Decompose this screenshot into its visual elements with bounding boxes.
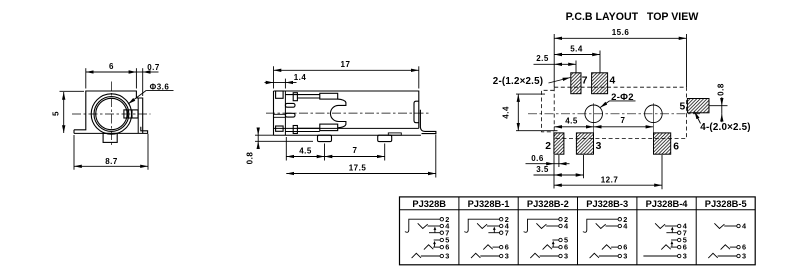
PJ328B-3 terminal 2 circle	[618, 218, 621, 221]
PJ328B terminal 4 circle	[440, 224, 443, 227]
dimension 4.4: dimension line with arrows	[517, 94, 519, 131]
side view: lower terminal tab	[293, 126, 297, 134]
dimension 15.6: dimension line with arrows	[554, 37, 686, 39]
variant table: column border 4	[636, 197, 638, 265]
PJ328B-4 pin 5 wire	[671, 239, 677, 241]
side view: bottom-left corner box	[276, 126, 284, 131]
dimension 17: extension lines	[273, 66, 275, 88]
side view: solder pin foot 1	[318, 135, 332, 141]
dimension 3.5: dimension line with arrows	[554, 174, 584, 176]
hole note: underline	[610, 100, 636, 102]
PJ328B pin 4 wire	[428, 225, 441, 227]
PJ328B pin 7 wire	[429, 232, 440, 234]
hole 1 extension line down	[593, 124, 595, 139]
svg-text:6: 6	[505, 243, 509, 252]
front view: bottom center tab	[103, 133, 117, 142]
dimension 2.5: dimension line with arrows	[554, 63, 576, 65]
PJ328B terminal 6 circle	[440, 245, 443, 248]
PJ328B-4 terminal 4 circle	[678, 224, 681, 227]
PJ328B-5 terminal 6 circle	[737, 245, 740, 248]
svg-text:1.4: 1.4	[294, 73, 307, 82]
svg-text:5: 5	[680, 102, 686, 113]
PJ328B-1 terminal 7 circle	[500, 231, 503, 234]
PJ328B-3 pin 3 contact hat	[590, 253, 599, 258]
PJ328B-3 pin 2 sleeve wire with hook	[583, 219, 618, 232]
svg-text:3: 3	[623, 252, 627, 261]
PJ328B-1 terminal 2 circle	[500, 218, 503, 221]
PJ328B-5 pin 3 wire	[718, 255, 737, 257]
mounting hole 2: vertical center line	[652, 103, 654, 124]
svg-text:PJ328B: PJ328B	[412, 199, 446, 209]
PJ328B-1 pin 6 wire	[493, 246, 500, 248]
variant table: column border 5	[695, 197, 697, 265]
dimension 3.5: left tail	[534, 174, 555, 176]
front view: inner hole circle (3.6mm)	[96, 98, 127, 129]
PJ328B-4 switch arrow 4-7	[671, 229, 673, 232]
hole note: leader arrow to hole 1	[600, 101, 610, 108]
side view: upper terminal tab	[293, 93, 297, 101]
dimension 0.8 left: connecting segment	[257, 135, 259, 141]
PJ328B-2 pin 2 sleeve wire with hook	[524, 219, 559, 232]
dimension 8.7: dimension line with arrows	[74, 165, 148, 167]
variant table: header separator line	[400, 209, 756, 211]
side view: upper contact bar	[285, 95, 319, 98]
side view: small bottom tab right	[388, 133, 401, 135]
dimension 17.5: extension line right	[435, 135, 437, 178]
PJ328B-2 pin 4 tip contact vee	[536, 223, 546, 228]
svg-text:15.6: 15.6	[612, 28, 630, 37]
svg-text:17.5: 17.5	[349, 163, 367, 172]
dimension 2.5: extension line at pad 7 center	[575, 61, 577, 73]
svg-text:0.8: 0.8	[717, 83, 726, 96]
pad 3 (2.0x2.5)	[576, 133, 593, 154]
dimension 0.8 right: lower arrow	[721, 114, 723, 122]
side view: front face stub lines	[274, 114, 286, 117]
variant table: column border 2	[517, 197, 519, 265]
variant table: column border 3	[577, 197, 579, 265]
svg-text:5: 5	[52, 111, 61, 116]
svg-text:PJ328B-2: PJ328B-2	[527, 199, 569, 209]
PJ328B-1 pin 3 wire	[480, 255, 499, 257]
side view: left terminal strip lower	[285, 113, 295, 117]
PJ328B-4 terminal 7 circle	[678, 231, 681, 234]
PJ328B-3 terminal 4 circle	[618, 224, 621, 227]
side view: feet bottom line	[274, 134, 421, 136]
dimension 4.5 pcb: dimension line with arrows	[554, 126, 594, 128]
dimension 0.6: left arrow tail	[526, 163, 555, 165]
side view: right L bracket outer	[420, 110, 436, 134]
dimension 0.8 right: extension line from pad 5 center	[709, 105, 728, 107]
dimension 2.5: left tail	[534, 63, 555, 65]
side view: left terminal strip upper	[285, 103, 295, 107]
PJ328B-1 pin 6 ring contact hat	[483, 245, 492, 250]
pad 5 (2.5x2.0)	[687, 99, 709, 113]
dimension 8.7: extension lines	[73, 135, 75, 170]
svg-text:5.4: 5.4	[570, 45, 583, 54]
svg-text:6: 6	[445, 243, 449, 252]
PJ328B-3 pin 3 wire	[599, 255, 618, 257]
PJ328B pin 2 sleeve wire with hook	[405, 219, 440, 232]
PJ328B-5 terminal 3 circle	[737, 254, 740, 257]
PJ328B pin 6 wire	[433, 246, 440, 248]
PJ328B-1 pin 2 sleeve wire with hook	[464, 219, 499, 232]
dimension 0.8 right: connecting segment	[721, 106, 723, 114]
side view: tip contact claw with semicircular notch	[330, 99, 345, 128]
svg-text:0.7: 0.7	[147, 63, 160, 72]
PJ328B terminal 5 circle	[440, 238, 443, 241]
svg-text:17: 17	[341, 60, 351, 69]
PJ328B-2 pin 6 ring contact hat	[543, 245, 552, 250]
dimension 4.5 and 7: extension lines	[285, 137, 287, 161]
side view: solder pin foot 2	[378, 135, 392, 141]
svg-text:4: 4	[742, 222, 747, 231]
PJ328B-5 pin 4 wire	[724, 225, 737, 227]
svg-text:3: 3	[564, 252, 568, 261]
front view: right foot bracket	[141, 127, 148, 134]
PJ328B terminal 2 circle	[440, 218, 443, 221]
svg-text:7: 7	[582, 76, 588, 87]
mounting hole 1: vertical center line	[593, 103, 595, 124]
PJ328B-3 pin 4 wire	[606, 225, 619, 227]
PJ328B-3 terminal 3 circle	[618, 254, 621, 257]
svg-text:3: 3	[596, 141, 602, 152]
svg-text:3: 3	[505, 252, 509, 261]
pad 7 (1.2x2.5)	[571, 73, 581, 94]
PJ328B-2 pin 5 wire	[552, 239, 558, 241]
svg-text:0.6: 0.6	[531, 154, 544, 163]
front view: outer barrel circle	[91, 94, 131, 134]
dimension 1.4: right arrow tail	[285, 82, 296, 84]
svg-text:0.8: 0.8	[246, 152, 255, 165]
PJ328B-1 pin 4 wire	[487, 225, 500, 227]
svg-text:6: 6	[742, 243, 746, 252]
front view: vertical center line	[110, 82, 112, 147]
svg-text:8.7: 8.7	[105, 157, 118, 166]
mounting hole 2 (2mm)	[645, 105, 663, 123]
PJ328B-2 terminal 6 circle	[559, 245, 562, 248]
PJ328B-3 pin 4 tip contact vee	[596, 223, 606, 228]
dimension 0.7: connecting segment	[136, 71, 142, 73]
dimension 0.6: extension at pad2 center	[558, 155, 560, 167]
front view: jack body outline	[74, 91, 143, 133]
svg-text:4.5: 4.5	[299, 146, 312, 155]
PJ328B-1 pin 4 tip contact vee	[477, 223, 487, 228]
dimension 5: dimension line with arrows	[63, 92, 65, 133]
front view: right side contact block	[124, 110, 138, 118]
PJ328B switch arrow 4-7	[434, 229, 436, 232]
front view: middle barrel circle	[94, 97, 129, 132]
svg-text:PJ328B-4: PJ328B-4	[646, 199, 689, 209]
PJ328B-1 switch arrow 4-7	[493, 229, 495, 232]
PJ328B-4 terminal 3 circle	[678, 254, 681, 257]
variant table: outer border	[400, 197, 756, 265]
dimension 12.7: dimension line with arrows	[554, 184, 662, 186]
PJ328B pin 5 wire	[434, 239, 440, 241]
PJ328B-2 terminal 4 circle	[559, 224, 562, 227]
dimension 12.7: extension at pad6 center	[661, 155, 663, 189]
svg-text:12.7: 12.7	[601, 175, 619, 184]
svg-text:4: 4	[610, 76, 616, 87]
PJ328B-2 pin 4 wire	[546, 225, 559, 227]
hole 2 extension line down	[652, 124, 654, 139]
side view: lower contact bar	[285, 128, 319, 131]
side view: body outline rectangle	[274, 91, 419, 135]
PJ328B-2 pin 6 wire	[552, 246, 559, 248]
svg-text:6: 6	[623, 243, 627, 252]
PJ328B-4 pin 6 wire	[671, 246, 678, 248]
svg-text:PJ328B-3: PJ328B-3	[586, 199, 628, 209]
pad 4 (2.0x2.5)	[592, 73, 608, 94]
PJ328B-1 terminal 4 circle	[500, 224, 503, 227]
PJ328B-2 terminal 5 circle	[559, 238, 562, 241]
dimension 1.4: extension line	[284, 79, 286, 89]
dimension 0.6: connecting segment	[554, 163, 559, 165]
svg-text:7: 7	[621, 116, 626, 125]
dimension 15.6: extension line left	[553, 34, 555, 87]
front view: inner right wall	[137, 98, 139, 133]
pad 6 (2.0x2.5)	[654, 133, 671, 154]
PJ328B-5 pin 6 ring contact hat	[721, 245, 730, 250]
dimension 5.4: dimension line with arrows	[554, 54, 600, 56]
PJ328B-2 terminal 3 circle	[559, 254, 562, 257]
PJ328B-1 pin 3 contact hat	[471, 253, 480, 258]
svg-text:2.5: 2.5	[536, 54, 549, 63]
front view: bottom edge line	[74, 132, 148, 134]
svg-text:4-(2.0×2.5): 4-(2.0×2.5)	[700, 122, 750, 133]
dimension 4.5: dimension line with arrows	[286, 156, 324, 158]
PJ328B-1 terminal 3 circle	[500, 254, 503, 257]
svg-text:3: 3	[742, 252, 746, 261]
svg-text:6: 6	[683, 243, 687, 252]
PJ328B-4 pin 6 ring contact hat	[661, 245, 670, 250]
PJ328B-1 terminal 6 circle	[500, 245, 503, 248]
dimension 17: dimension line with arrows	[274, 69, 419, 71]
PJ328B pin 4 tip contact vee	[418, 223, 428, 228]
dimension 0.7: extension line	[142, 68, 144, 96]
side view: right inner rounded tab	[414, 101, 419, 123]
dimension 6: dimension line with arrows	[86, 71, 137, 73]
PJ328B-4 pin 3 plain wire	[643, 255, 677, 257]
svg-text:4.4: 4.4	[502, 106, 511, 119]
dimension 0.8 left: upper arrow	[257, 128, 259, 136]
PJ328B pin 3 wire	[421, 255, 440, 257]
PJ328B terminal 7 circle	[440, 231, 443, 234]
pad 2 (1.2x2.5)	[554, 133, 564, 154]
svg-text:P.C.B LAYOUT TOP VIEW: P.C.B LAYOUT TOP VIEW	[566, 11, 699, 23]
pcb layout: horizontal center line	[528, 113, 700, 115]
svg-text:7: 7	[505, 228, 509, 237]
PJ328B switch arrow 5-6	[434, 243, 436, 246]
PJ328B terminal 3 circle	[440, 254, 443, 257]
svg-text:3: 3	[683, 252, 687, 261]
PJ328B-2 pin 3 contact hat	[530, 253, 539, 258]
PJ328B-2 terminal 2 circle	[559, 218, 562, 221]
svg-text:7: 7	[353, 146, 358, 155]
dimension 3.5: extension at pad3 center	[583, 155, 585, 178]
PJ328B pin 6 ring contact hat	[424, 245, 433, 250]
front view: horizontal center line	[72, 113, 151, 115]
dimension 0.8 right: upper arrow	[721, 97, 723, 106]
dimension 0.6: extension at pad2 left	[553, 155, 555, 189]
PJ328B pin 3 contact hat	[412, 253, 421, 258]
PJ328B-3 pin 6 ring contact hat	[602, 245, 611, 250]
front view: left mounting foot	[73, 130, 75, 134]
side view: body bottom inner line	[274, 127, 419, 129]
svg-text:2-(1.2×2.5): 2-(1.2×2.5)	[493, 76, 543, 87]
dimension dia 3.6: leader underline	[146, 89, 173, 91]
side view: lower contact block	[320, 124, 338, 131]
dimension 0.8 left: lower arrow	[257, 141, 259, 149]
PJ328B-4 switch arrow 5-6	[671, 243, 673, 246]
PJ328B-5 pin 4 tip contact vee	[714, 223, 724, 228]
PJ328B-2 switch arrow 5-6	[552, 243, 554, 246]
svg-text:4: 4	[564, 222, 569, 231]
dimension 15.6: extension line right	[686, 34, 688, 87]
side view: front face inner line (1.4)	[284, 91, 286, 135]
svg-text:PJ328B-5: PJ328B-5	[705, 199, 747, 209]
variant table: column border 1	[458, 197, 460, 265]
side view: top-left corner box	[276, 91, 284, 98]
PJ328B-4 terminal 5 circle	[678, 238, 681, 241]
front view: contact block divider 1	[127, 110, 129, 118]
dimension 17.5: dimension line with arrows	[286, 173, 436, 175]
PJ328B-5 pin 3 contact hat	[708, 253, 717, 258]
dimension 1.4: connecting segment	[274, 82, 286, 84]
side view: upper contact block	[320, 93, 338, 99]
svg-text:6: 6	[109, 62, 114, 71]
side view: horizontal center line	[266, 112, 431, 114]
dimension 0.6: right arrow tail	[559, 163, 570, 165]
dimension 6: extension lines	[85, 68, 87, 88]
svg-text:6: 6	[673, 142, 679, 153]
svg-text:PJ328B-1: PJ328B-1	[468, 199, 510, 209]
svg-text:3: 3	[445, 252, 449, 261]
dimension 1.4: left arrow tail	[265, 82, 274, 84]
dimension 5: extension lines	[60, 90, 85, 92]
svg-text:6: 6	[564, 243, 568, 252]
dimension 0.8 left: extension lines	[255, 134, 274, 136]
PJ328B-1 pin 7 wire	[488, 232, 499, 234]
front view: contact block divider 2	[131, 110, 133, 118]
dimension 7 pcb: dimension line with arrows	[594, 126, 654, 128]
pad size note 4-: leader arrow to pad 5	[695, 112, 701, 124]
pcb layout: dashed left protrusion	[542, 90, 555, 132]
pcb layout: dashed body outline	[554, 87, 686, 138]
PJ328B-3 terminal 6 circle	[618, 245, 621, 248]
dimension 7 side: dimension line with arrows	[325, 156, 385, 158]
svg-text:2: 2	[545, 141, 551, 152]
mounting hole 1 (2mm)	[585, 105, 603, 123]
PJ328B-5 pin 6 wire	[730, 246, 737, 248]
PJ328B-4 pin 4 wire	[665, 225, 678, 227]
PJ328B-5 terminal 4 circle	[737, 224, 740, 227]
dimension 0.7: arrow tail	[143, 71, 159, 73]
PJ328B-4 pin 7 wire	[666, 232, 677, 234]
dimension 4.4: extension lines	[516, 93, 545, 95]
PJ328B-2 pin 3 wire	[540, 255, 559, 257]
svg-text:4: 4	[623, 222, 628, 231]
svg-text:4.5: 4.5	[565, 117, 578, 126]
pad size note: leader arrow to pad 7	[549, 78, 571, 84]
dimension 5.4: extension line at pad 4 center	[599, 51, 601, 73]
PJ328B-4 terminal 6 circle	[678, 245, 681, 248]
dimension dia 3.6: leader arrow to hole	[128, 90, 146, 104]
svg-text:3.5: 3.5	[536, 165, 549, 174]
PJ328B-4 pin 4 tip contact vee	[655, 223, 665, 228]
PJ328B-3 pin 6 wire	[611, 246, 618, 248]
